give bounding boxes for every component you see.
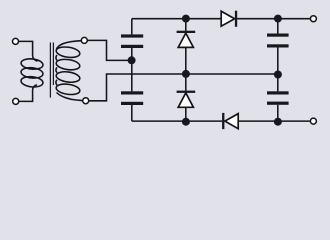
- wire C3 top: [277, 19, 279, 34]
- terminal primary bottom: [13, 98, 19, 104]
- diode D2 triangle: [178, 93, 193, 108]
- wire C4 bottom to bottom rail: [277, 105, 279, 121]
- wire secondary bottom lead: [57, 93, 83, 101]
- wire primary top lead: [18, 41, 37, 61]
- wire C1 bottom to node A: [131, 48, 133, 60]
- diode D3 cathode bar: [235, 11, 237, 27]
- wire secondary top to node A: [87, 40, 132, 60]
- diode D4 cathode bar: [222, 113, 224, 129]
- capacitor C2 plates: [121, 91, 143, 94]
- wire C3 bottom to mid node: [277, 48, 279, 75]
- wire D2 anode to bottom rail: [185, 107, 187, 121]
- terminal output bottom: [310, 118, 316, 124]
- junction bottom rail at D2: [182, 118, 190, 126]
- diode D1 cathode bar: [177, 31, 196, 33]
- wire secondary top lead: [56, 41, 81, 50]
- wire secondary bottom to node B rail: [89, 74, 278, 101]
- junction node B: [182, 70, 190, 78]
- terminal secondary top: [81, 37, 87, 43]
- capacitor C4 plates: [267, 91, 289, 94]
- terminal secondary bottom: [83, 98, 89, 104]
- diode D3 triangle: [221, 11, 234, 26]
- wire top rail left segment: [132, 18, 221, 20]
- junction bottom rail at C4: [274, 118, 282, 126]
- wire node B to D2 cathode: [185, 74, 187, 91]
- diode D4 triangle: [225, 114, 238, 129]
- wire primary bottom lead: [19, 85, 37, 102]
- wire C2 bottom to bottom rail: [131, 105, 133, 121]
- inductor L1 primary winding: [21, 58, 44, 70]
- junction right mid node: [274, 71, 282, 79]
- capacitor C1 plates: [121, 34, 143, 37]
- wire node A to C2 (crosses middle wire): [131, 60, 133, 91]
- wire C1 top: [131, 19, 133, 35]
- junction node A: [128, 56, 136, 64]
- capacitor C3 plates: [267, 34, 289, 37]
- diode D1 triangle: [178, 33, 193, 47]
- wire D1 anode down to node B: [185, 47, 187, 74]
- wire top rail to D1 cathode: [185, 19, 187, 31]
- wire secondary loop hook 1: [56, 55, 57, 60]
- wire mid node to C4: [277, 74, 279, 91]
- wire top rail right segment: [237, 18, 310, 20]
- junction top rail at C3: [274, 15, 282, 23]
- diode D2 cathode bar: [177, 91, 196, 93]
- transformer core: [50, 43, 53, 98]
- wire secondary loop hook 2: [56, 67, 57, 72]
- wire secondary loop hook 3: [56, 80, 57, 85]
- wire bottom rail left segment: [132, 120, 222, 122]
- terminal primary top: [13, 38, 19, 44]
- inductor L2 secondary winding: [56, 46, 81, 59]
- wire bottom rail right segment: [238, 120, 310, 122]
- terminal output top: [310, 16, 316, 22]
- junction top rail at D1: [182, 15, 190, 23]
